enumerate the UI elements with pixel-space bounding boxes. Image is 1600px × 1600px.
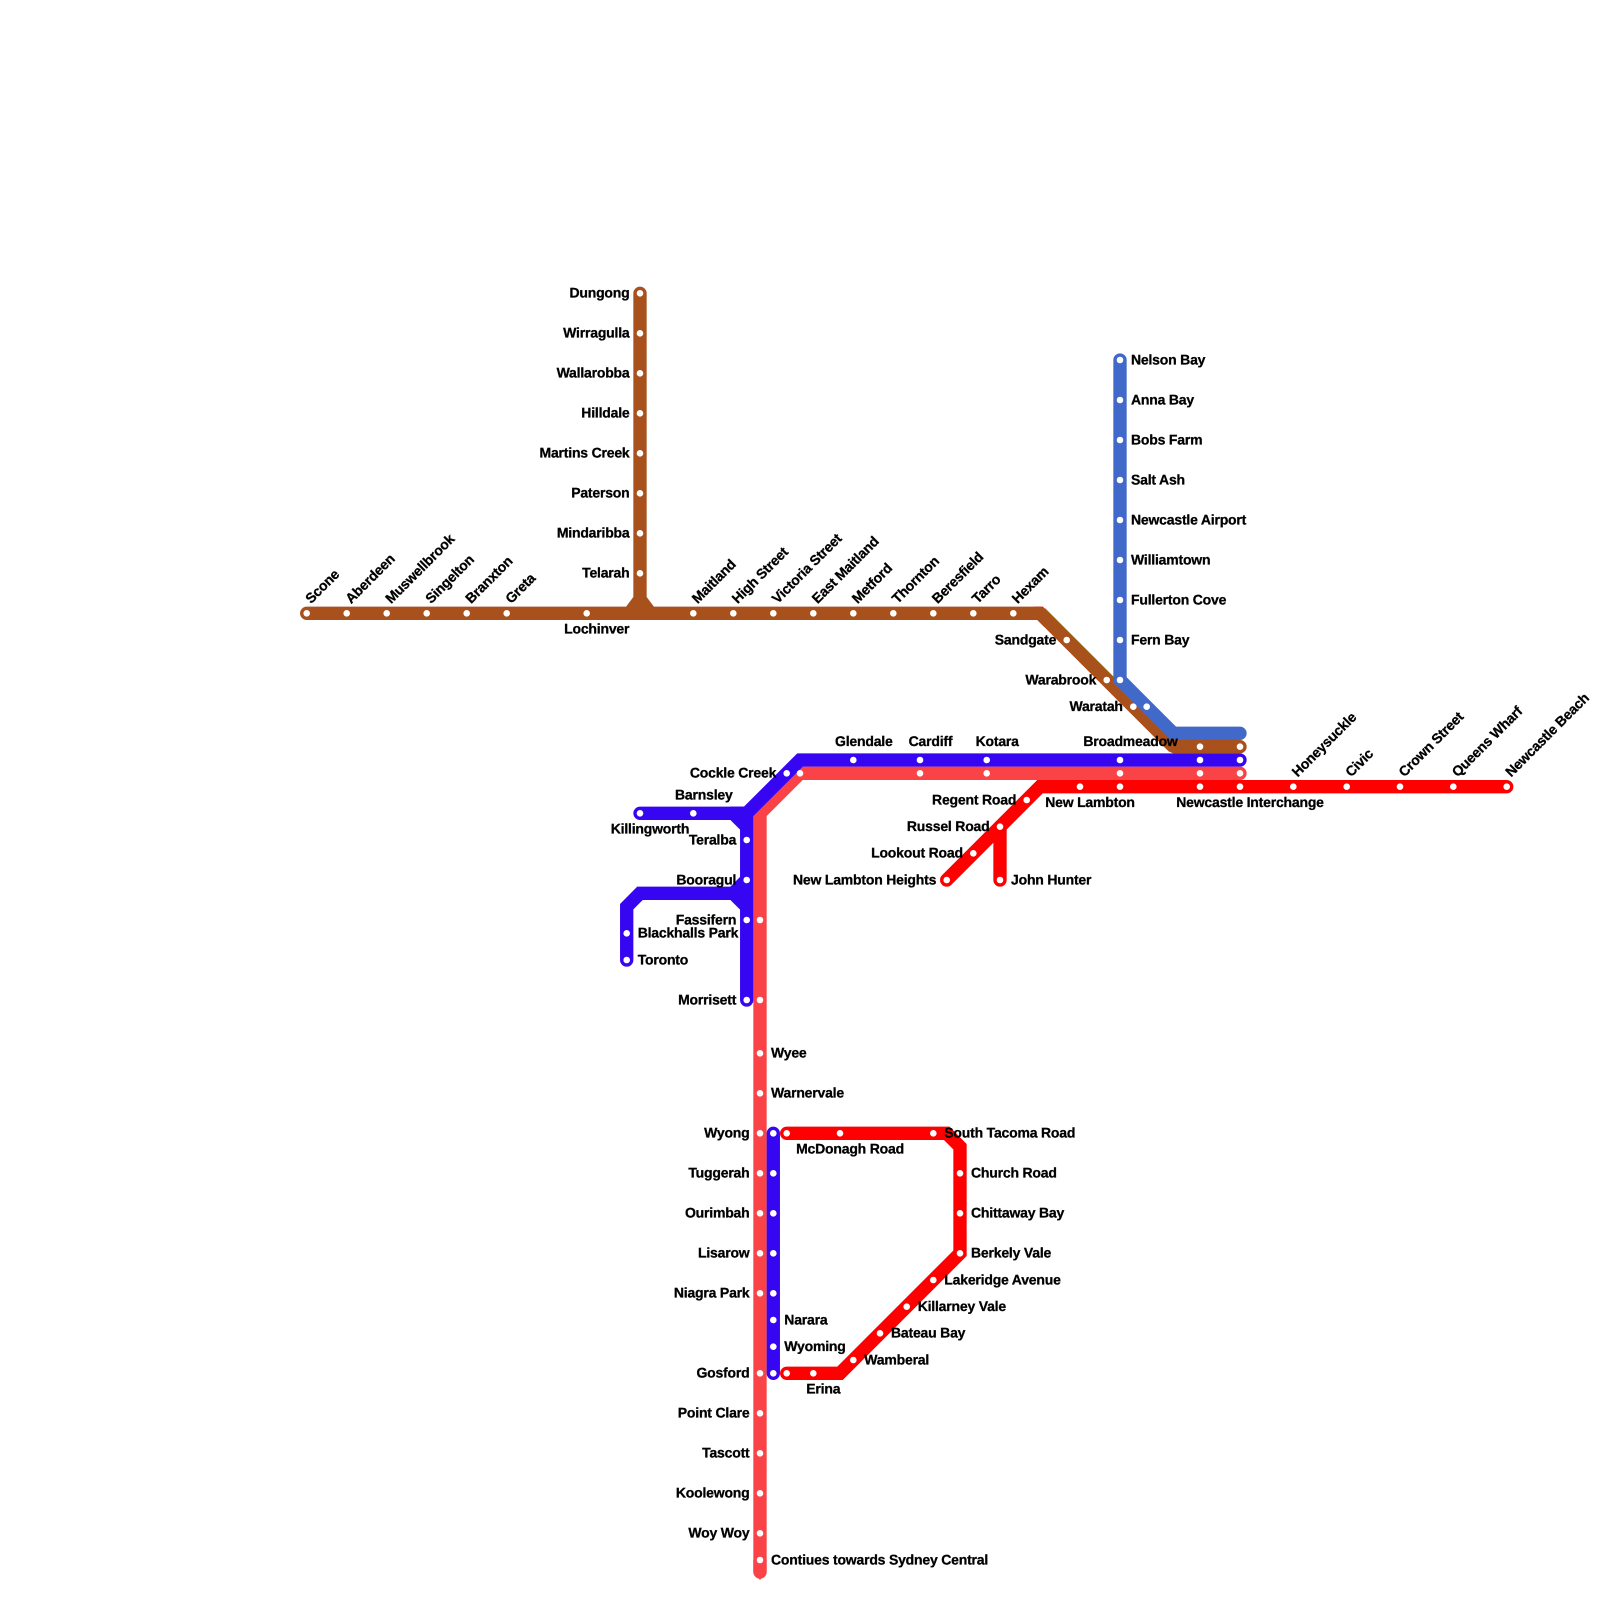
- station dot Warabrook: [1103, 677, 1110, 684]
- svg-text:Woy Woy: Woy Woy: [688, 1525, 750, 1541]
- station dot Queens Wharf: [1450, 783, 1457, 790]
- station dot purple Wyong: [770, 1130, 777, 1137]
- station dot red Newcastle Interchange: [1237, 783, 1244, 790]
- svg-text:Koolewong: Koolewong: [676, 1485, 750, 1501]
- station dot Koolewong: [757, 1490, 764, 1497]
- station dot Fern Bay: [1117, 637, 1124, 644]
- station dot Cockle Creek: [783, 770, 790, 777]
- station dot purple Lisarow: [770, 1250, 777, 1257]
- svg-text:Fullerton Cove: Fullerton Cove: [1131, 591, 1227, 607]
- station dot Tarro: [970, 610, 977, 617]
- station dot Fullerton Cove: [1117, 597, 1124, 604]
- station dot lightred Cardiff: [917, 770, 924, 777]
- station dot Beresfield: [930, 610, 937, 617]
- svg-text:South Tacoma Road: South Tacoma Road: [944, 1125, 1075, 1141]
- svg-text:Tuggerah: Tuggerah: [688, 1165, 749, 1181]
- station dot Lochinver: [583, 610, 590, 617]
- station dot South Tacoma Road: [930, 1130, 937, 1137]
- svg-text:Lochinver: Lochinver: [564, 621, 630, 637]
- station dot Glendale: [850, 757, 857, 764]
- station dot Wamberal: [850, 1357, 857, 1364]
- station dot red Broadmeadow: [1117, 783, 1124, 790]
- svg-text:Regent Road: Regent Road: [932, 791, 1016, 807]
- station dot towards Sydney Central: [757, 1557, 764, 1564]
- station dot Warnervale: [757, 1090, 764, 1097]
- svg-text:Cardiff: Cardiff: [909, 733, 953, 749]
- station dot Victoria Street: [770, 610, 777, 617]
- station dot Niagra Park: [757, 1290, 764, 1297]
- svg-text:Warnervale: Warnervale: [771, 1085, 844, 1101]
- station dot brown Newcastle Interchange: [1237, 743, 1244, 750]
- station dot Wyee: [757, 1050, 764, 1057]
- svg-text:Newcastle Airport: Newcastle Airport: [1131, 511, 1247, 527]
- station dot Killarney Vale: [903, 1303, 910, 1310]
- station dot East Maitland: [810, 610, 817, 617]
- purple line: Wyong to Gosford segment: [767, 1133, 780, 1373]
- station dot Singelton: [423, 610, 430, 617]
- station dot New Lambton Heights: [943, 877, 950, 884]
- station dot red Wyong: [783, 1130, 790, 1137]
- station dot Point Clare: [757, 1410, 764, 1417]
- station dot lightred Newcastle Interchange: [1237, 770, 1244, 777]
- svg-text:Broadmeadow: Broadmeadow: [1083, 733, 1178, 749]
- svg-text:McDonagh Road: McDonagh Road: [796, 1141, 904, 1157]
- station dot lightred Kotara: [983, 770, 990, 777]
- svg-text:Martins Creek: Martins Creek: [540, 445, 630, 461]
- station dot purple Ourimbah: [770, 1210, 777, 1217]
- brown Hunter line: Scone to Newcastle Interchange: [307, 613, 1240, 746]
- svg-text:Bobs Farm: Bobs Farm: [1131, 431, 1202, 447]
- station dot Scone: [303, 610, 310, 617]
- station dot Newcastle Airport: [1117, 517, 1124, 524]
- svg-text:Telarah: Telarah: [582, 565, 629, 581]
- svg-text:Blackhalls Park: Blackhalls Park: [638, 925, 739, 941]
- svg-text:Hilldale: Hilldale: [581, 405, 630, 421]
- svg-text:Killingworth: Killingworth: [611, 821, 689, 837]
- purple line: Barnsley-Killingworth branch: [640, 807, 745, 820]
- svg-text:Booragul: Booragul: [676, 871, 736, 887]
- svg-text:Niagra Park: Niagra Park: [674, 1285, 750, 1301]
- svg-text:Church Road: Church Road: [971, 1165, 1057, 1181]
- svg-text:Wyoming: Wyoming: [784, 1338, 845, 1354]
- station dot Woy Woy: [757, 1530, 764, 1537]
- svg-text:Newcastle Interchange: Newcastle Interchange: [1176, 794, 1324, 810]
- station dot Berkely Vale: [957, 1250, 964, 1257]
- station dot Dungong: [637, 290, 644, 297]
- svg-text:Wyong: Wyong: [704, 1125, 749, 1141]
- station dot Sandgate: [1063, 637, 1070, 644]
- station dot purple Niagra Park: [770, 1290, 777, 1297]
- station dot blue Warabrook: [1117, 677, 1124, 684]
- station dot Wyoming: [770, 1343, 777, 1350]
- station dot purple Newcastle Interchange: [1237, 757, 1244, 764]
- svg-text:Warabrook: Warabrook: [1025, 671, 1096, 687]
- svg-text:Toronto: Toronto: [638, 951, 688, 967]
- station dot Paterson: [637, 490, 644, 497]
- station dot McDonagh Road: [837, 1130, 844, 1137]
- station dot Hexam: [1010, 610, 1017, 617]
- station dot Barnsley: [690, 810, 697, 817]
- station dot Muswellbrook: [383, 610, 390, 617]
- svg-text:Williamtown: Williamtown: [1131, 551, 1210, 567]
- station dot Waratah: [1130, 703, 1137, 710]
- svg-text:Cockle Creek: Cockle Creek: [690, 765, 777, 781]
- station dot Hilldale: [637, 410, 644, 417]
- purple line: Newcastle Interchange to Morisset: [747, 760, 1240, 1000]
- station dot High Street: [730, 610, 737, 617]
- purple Booragul junction flare: [730, 870, 746, 916]
- svg-text:Mindaribba: Mindaribba: [557, 525, 630, 541]
- red line: Newcastle Beach to New Lambton Heights: [947, 787, 1507, 880]
- station dot red Gosford: [783, 1370, 790, 1377]
- red sliver under Hunter line corner: [1034, 613, 1049, 622]
- station dot Mindaribba: [637, 530, 644, 537]
- svg-text:Wyee: Wyee: [771, 1045, 807, 1061]
- svg-text:John Hunter: John Hunter: [1011, 871, 1092, 887]
- olive sliver under Hunter line diagonal: [1040, 613, 1173, 746]
- station dot Civic: [1343, 783, 1350, 790]
- station dot Williamtown: [1117, 557, 1124, 564]
- station dot Nelson Bay: [1117, 357, 1124, 364]
- svg-text:Ourimbah: Ourimbah: [685, 1205, 750, 1221]
- station dot purple Tuggerah: [770, 1170, 777, 1177]
- svg-text:Narara: Narara: [784, 1311, 828, 1327]
- station dot Kotara: [983, 757, 990, 764]
- svg-text:Barnsley: Barnsley: [675, 787, 733, 803]
- svg-text:Lakeridge Avenue: Lakeridge Avenue: [944, 1271, 1061, 1287]
- svg-text:Anna Bay: Anna Bay: [1131, 391, 1194, 407]
- svg-text:Nelson Bay: Nelson Bay: [1131, 351, 1206, 367]
- station dot Erina: [810, 1370, 817, 1377]
- station dot Wallarobba: [637, 370, 644, 377]
- station dot Thornton: [890, 610, 897, 617]
- station dot Maitland: [690, 610, 697, 617]
- station dot Aberdeen: [343, 610, 350, 617]
- station dot blue Waratah: [1143, 703, 1150, 710]
- station dot Martins Creek: [637, 450, 644, 457]
- station dot Bobs Farm: [1117, 437, 1124, 444]
- svg-text:Gosford: Gosford: [696, 1365, 749, 1381]
- station dot Teralba: [743, 837, 750, 844]
- station dot Regent Road: [1023, 797, 1030, 804]
- svg-text:Fern Bay: Fern Bay: [1131, 631, 1190, 647]
- svg-text:Lisarow: Lisarow: [698, 1245, 750, 1261]
- svg-text:Bateau Bay: Bateau Bay: [891, 1325, 966, 1341]
- svg-text:Glendale: Glendale: [835, 733, 893, 749]
- svg-text:Kotara: Kotara: [976, 733, 1020, 749]
- blue Nelson Bay line: [1120, 360, 1240, 733]
- svg-text:Erina: Erina: [806, 1381, 840, 1397]
- purple Barnsley junction flare: [730, 807, 746, 837]
- svg-text:Point Clare: Point Clare: [678, 1405, 750, 1421]
- station dot Branxton: [463, 610, 470, 617]
- station dot Lookout Road: [970, 850, 977, 857]
- purple line: Toronto branch: [627, 893, 745, 960]
- svg-text:Lookout Road: Lookout Road: [871, 845, 963, 861]
- station dot red Hamilton: [1197, 783, 1204, 790]
- station dot Newcastle Beach: [1503, 783, 1510, 790]
- svg-text:Dungong: Dungong: [569, 285, 629, 301]
- station dot purple Hamilton: [1197, 757, 1204, 764]
- station dot Lakeridge Avenue: [930, 1277, 937, 1284]
- svg-text:Morrisett: Morrisett: [678, 991, 737, 1007]
- station dot brown unnamed Hamilton: [1197, 743, 1204, 750]
- station dot purple Fassifern: [743, 917, 750, 924]
- station dot Killingworth: [637, 810, 644, 817]
- station dot Blackhalls Park: [623, 930, 630, 937]
- svg-text:New Lambton: New Lambton: [1045, 794, 1135, 810]
- station dot Russel Road: [997, 823, 1004, 830]
- station dot lightred Morisset: [757, 997, 764, 1004]
- station dot Tascott: [757, 1450, 764, 1457]
- station dot Narara: [770, 1317, 777, 1324]
- svg-text:Waratah: Waratah: [1069, 698, 1122, 714]
- station dot Honeysuckle: [1290, 783, 1297, 790]
- station dot purple Gosford: [770, 1370, 777, 1377]
- station dot Chittaway Bay: [957, 1210, 964, 1217]
- station dot purple Morisset: [743, 997, 750, 1004]
- station dot Crown Street: [1397, 783, 1404, 790]
- station dot Gosford: [757, 1370, 764, 1377]
- station dot Cardiff: [917, 757, 924, 764]
- station dot Booragul: [743, 877, 750, 884]
- svg-text:Sandgate: Sandgate: [995, 631, 1057, 647]
- light red Central Coast line trunk: [760, 773, 1240, 1572]
- station dot Toronto: [623, 957, 630, 964]
- station dot Telarah: [637, 570, 644, 577]
- station dot Ourimbah: [757, 1210, 764, 1217]
- red line: John Hunter branch: [993, 827, 1006, 880]
- svg-text:Wirragulla: Wirragulla: [563, 325, 630, 341]
- red line: The Entrance loop Wyong-Gosford: [787, 1133, 960, 1373]
- station dot Salt Ash: [1117, 477, 1124, 484]
- svg-text:Contiues towards Sydney Centra: Contiues towards Sydney Central: [771, 1551, 988, 1567]
- svg-text:Teralba: Teralba: [689, 831, 737, 847]
- svg-text:Wamberal: Wamberal: [864, 1351, 929, 1367]
- brown Telarah junction flare: [624, 597, 656, 613]
- svg-text:Paterson: Paterson: [571, 485, 629, 501]
- brown Hunter line: Dungong branch vertical: [633, 293, 646, 611]
- station dot New Lambton: [1077, 783, 1084, 790]
- station dot Bateau Bay: [877, 1330, 884, 1337]
- light red line pointed south tip: [753, 1560, 766, 1572]
- station dot Lisarow: [757, 1250, 764, 1257]
- svg-text:Wallarobba: Wallarobba: [557, 365, 630, 381]
- station dot Wirragulla: [637, 330, 644, 337]
- station dot Church Road: [957, 1170, 964, 1177]
- station dot Greta: [503, 610, 510, 617]
- svg-text:Russel Road: Russel Road: [907, 818, 990, 834]
- station dot lightred Broadmeadow: [1117, 770, 1124, 777]
- svg-text:Chittaway Bay: Chittaway Bay: [971, 1205, 1065, 1221]
- station dot Metford: [850, 610, 857, 617]
- svg-text:Salt Ash: Salt Ash: [1131, 471, 1185, 487]
- station dot John Hunter: [997, 877, 1004, 884]
- station dot Tuggerah: [757, 1170, 764, 1177]
- station dot purple Broadmeadow: [1117, 757, 1124, 764]
- station dot Wyong: [757, 1130, 764, 1137]
- svg-text:Berkely Vale: Berkely Vale: [971, 1245, 1052, 1261]
- station dot lightred Cockle Creek: [797, 770, 804, 777]
- svg-text:New Lambton Heights: New Lambton Heights: [793, 871, 937, 887]
- svg-text:Tascott: Tascott: [702, 1445, 750, 1461]
- station dot lightred Hamilton: [1197, 770, 1204, 777]
- svg-text:Killarney Vale: Killarney Vale: [918, 1298, 1007, 1314]
- station dot lightred Fassifern: [757, 917, 764, 924]
- station dot Anna Bay: [1117, 397, 1124, 404]
